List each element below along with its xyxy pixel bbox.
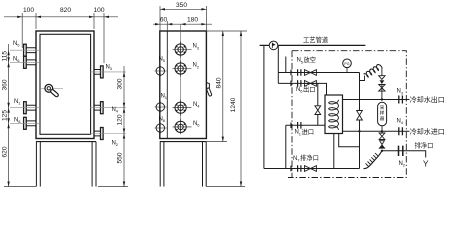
branch riser to vent/outlet lines (277, 45, 279, 83)
N1 left riser to drain (285, 125, 287, 168)
leg L4 (203, 142, 207, 187)
svg-text:排净口: 排净口 (415, 141, 434, 150)
flange circle N3 (side view top) (173, 42, 192, 58)
svg-text:100: 100 (23, 7, 34, 14)
cooling water outlet line (343, 99, 410, 101)
flange pair CW inlet (399, 127, 403, 135)
nozzle N8 (left wall, bottom) (10, 117, 40, 129)
flange pair N6 line (298, 80, 301, 87)
nozzle N4 (right wall, middle) (90, 102, 126, 114)
side view dimensions (153, 6, 247, 187)
valve on N5 line (305, 70, 317, 76)
right dim chain line (123, 66, 125, 187)
nozzle N5 (left wall, top) (10, 44, 40, 56)
battery limit boundary (dash-dot box) (288, 51, 406, 178)
valve below sampler (379, 131, 385, 139)
left bus riser (263, 45, 265, 168)
valve above CW outlet (379, 85, 385, 100)
flange pair N1 line (298, 122, 301, 129)
svg-text:115: 115 (1, 51, 8, 62)
main riser (vent corner to drain) (359, 73, 361, 169)
support frame line (160, 141, 207, 143)
nozzle axis centerline (180, 24, 182, 133)
valve on main riser (357, 111, 363, 121)
boundary tick N5 (290, 70, 292, 76)
svg-text:820: 820 (60, 7, 71, 14)
dim arrows front (7, 16, 125, 187)
flange circle N6 (side view bottom) (173, 119, 192, 134)
flange circle N4 (side view) (173, 100, 192, 116)
svg-text:出口: 出口 (303, 84, 316, 93)
flange pair N5 line (298, 69, 301, 76)
nozzle N6 (left wall, second) (10, 56, 40, 68)
agitator handle H1 (41, 84, 63, 95)
dim texts front (1, 7, 123, 164)
svg-text:350: 350 (176, 2, 187, 9)
process pipe header (260, 44, 366, 46)
tank T1 side jacket wall (166, 31, 168, 139)
cooler vessel (tank with coil) (325, 95, 343, 134)
N5 vent line (278, 72, 359, 74)
flange pair drain line (298, 165, 301, 172)
leg L3 (160, 142, 164, 187)
check element (filled) (380, 80, 385, 84)
svg-text:125: 125 (1, 110, 8, 121)
tank T1 inner shell (jacket) (40, 34, 91, 134)
support frame line under tank (36, 141, 96, 143)
svg-text:100: 100 (93, 7, 104, 14)
nozzle N2 (right wall, bottom) (90, 128, 126, 140)
tank T1 outer shell (36, 31, 94, 139)
svg-text:620: 620 (1, 146, 8, 157)
top dim line (4, 16, 118, 18)
N6 outlet line (278, 83, 326, 95)
schematic texts (293, 35, 445, 169)
nozzle N1 (left wall, third) (10, 102, 40, 114)
svg-text:进口: 进口 (302, 128, 315, 136)
drain header N7 (264, 168, 360, 170)
tank T1 side outer shell (160, 31, 207, 139)
side view nozzle labels (159, 44, 201, 128)
flange pair drain outlet (399, 146, 403, 156)
N1 inlet line (286, 124, 325, 126)
capsule stem to CW inlet line (381, 126, 383, 132)
bypass riser with valve (317, 83, 319, 125)
flexible hose coil (top) (360, 76, 365, 81)
svg-text:冷却水出口: 冷却水出口 (410, 95, 445, 104)
front view dimensions (4, 13, 128, 187)
valve on drain line (305, 166, 317, 172)
svg-text:60: 60 (160, 17, 168, 24)
short stub (285, 57, 287, 73)
svg-text:放空: 放空 (304, 55, 317, 64)
flange pair CW outlet (399, 96, 403, 104)
drain outlet line (382, 151, 426, 158)
svg-text:550: 550 (117, 152, 124, 163)
svg-text:1240: 1240 (230, 97, 237, 112)
svg-text:840: 840 (215, 77, 222, 88)
air-gap funnel to drain (380, 141, 385, 145)
vessel bottom drop pipe 2 (339, 134, 360, 147)
boundary tick N6 (290, 81, 292, 87)
vessel bottom drop pipe 1 (333, 134, 335, 169)
leg L2 (front right) (92, 142, 96, 187)
handle side view (206, 83, 209, 89)
wall flange N1 (side view) (155, 101, 167, 113)
svg-text:360: 360 (1, 79, 8, 90)
funnel below hose (379, 76, 385, 80)
nozzle labels front (13, 41, 119, 147)
valve on N6 line (305, 81, 317, 87)
left dim chain line (8, 44, 10, 187)
instrument bubble on process line (269, 41, 278, 50)
cooling water inlet line (343, 130, 410, 132)
leg L1 (front left) (36, 142, 40, 187)
nozzle N3 (right wall, top) (90, 66, 126, 78)
svg-text:Y: Y (423, 159, 429, 169)
svg-text:300: 300 (117, 78, 124, 89)
svg-text:PG: PG (344, 62, 349, 66)
pressure gauge PG (343, 59, 352, 68)
svg-text:180: 180 (187, 17, 198, 24)
boundary tick N1 (290, 123, 292, 129)
svg-text:工艺管道: 工艺管道 (303, 35, 329, 44)
flexible hose (bottom, hatched) (364, 151, 382, 169)
svg-text:排净口: 排净口 (300, 153, 319, 162)
bypass valve (vertical bowtie) (315, 106, 321, 115)
internal coil (329, 100, 339, 130)
svg-text:冷却水进口: 冷却水进口 (410, 127, 445, 136)
boundary tick drain (290, 166, 292, 172)
sampler capsule (378, 102, 387, 126)
svg-text:120: 120 (117, 114, 124, 125)
wall flange N8 (side view) (155, 122, 167, 134)
wall flange N5 (side view, on left wall) (155, 65, 167, 77)
flange circle N2 (side view) (173, 61, 192, 77)
